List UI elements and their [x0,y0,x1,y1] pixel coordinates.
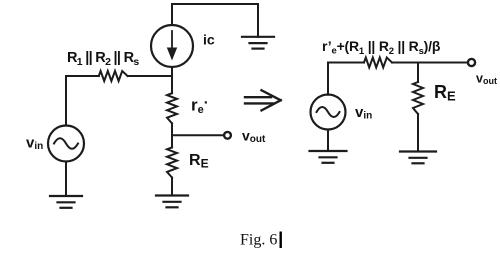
wire: vin top to resistor (right) [328,62,364,64]
resistor re' (vertical) [167,93,177,123]
svg-text:Fig. 6: Fig. 6 [240,232,277,249]
svg-text:ic: ic [203,32,215,48]
source vin (left circuit) [48,126,84,162]
terminal vout (right, open circle) [468,59,475,66]
terminal vout (open circle) [224,132,231,139]
ground (below RE left) [156,196,188,208]
current source I1 arrow [167,31,177,61]
implies arrow (double arrow) [245,90,281,110]
wire: left rail down to vin [65,76,67,126]
text cursor [280,232,282,249]
wire: top rail horizontal [172,3,258,5]
wire: current source bottom to resistor re [171,67,173,93]
ground (top right of left circuit) [242,37,274,49]
source vin (right circuit) [311,95,346,130]
wire: current source top to top rail [171,4,173,25]
wire: node to vout terminal [172,134,223,136]
svg-text:RE: RE [189,152,209,171]
svg-text:vin: vin [355,104,372,122]
wire: left rail to vin (right) [327,63,329,95]
ground (below vin left) [50,196,82,208]
wire: re to node and to RE [171,123,173,147]
wire: vin to ground [65,162,67,197]
wire: resistor to collector rail [128,75,172,77]
svg-text:re·: re· [191,95,209,117]
svg-text:RE: RE [434,82,456,104]
wire: resistor to vout (right) [392,62,467,64]
svg-text:vin: vin [26,135,43,153]
svg-text:vout: vout [242,128,266,146]
svg-text:vout: vout [476,72,497,87]
ground (below vin right) [310,151,347,163]
wire: vin to ground (right) [327,130,329,152]
resistor RE (left circuit, vertical) [167,147,177,177]
svg-text:R1 || R2 || Rs: R1 || R2 || Rs [67,50,139,68]
resistor r'e+(R1||R2||Rs)/beta (horizontal) [364,58,392,68]
ground (below RE right) [400,152,436,164]
wire: RE to ground (right) [417,114,419,152]
wire: RE to ground [171,178,173,196]
wire: junction down to RE (right) [417,63,419,83]
resistor RE (right, vertical) [413,82,423,114]
wire: base node left segment [66,75,99,77]
wire: top rail down to ground [257,4,259,37]
svg-text:r’e+(R1 || R2 || Rs)/β: r’e+(R1 || R2 || Rs)/β [322,38,441,57]
current source I1 circle [151,25,193,67]
resistor R1||R2||Rs (horizontal) [99,71,128,81]
